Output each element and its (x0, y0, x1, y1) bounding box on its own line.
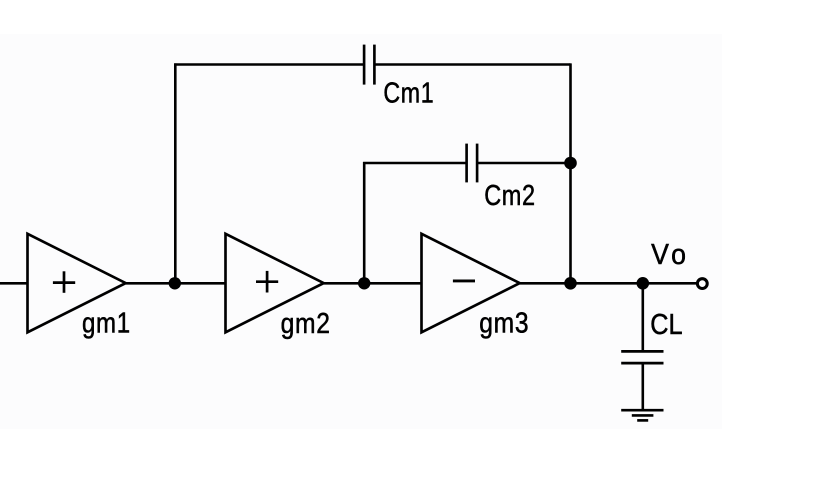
wire Cm1 top left segment (174, 63, 364, 66)
wire gm3 to output terminal (520, 282, 696, 285)
node D (gm3 output junction) (564, 277, 577, 290)
capacitor CL (621, 351, 663, 363)
scan background (0, 34, 722, 429)
wire input to gm1 (0, 282, 28, 285)
terminal Vo (open circle) (697, 279, 707, 289)
svg-text:Cm1: Cm1 (383, 76, 434, 109)
wire Cm2 left segment (363, 162, 467, 165)
svg-text:gm1: gm1 (82, 306, 131, 339)
wire right vertical from Cm1 down to output (569, 63, 572, 283)
op-amp gm3 (422, 234, 520, 332)
wire node A up to Cm1 (174, 63, 177, 283)
wire Cm2 left vertical (363, 162, 366, 283)
node B (Cm1/Cm2 junction) (564, 157, 577, 170)
wire Cm2 right segment (477, 162, 570, 165)
op-amp gm1 (28, 234, 126, 332)
wire gm2 to gm3 (324, 282, 422, 285)
plus sign gm1 (53, 271, 75, 293)
minus sign gm3 (453, 279, 475, 282)
capacitor Cm1 (364, 45, 374, 85)
node A (gm1 output) (169, 277, 181, 289)
wire gm1 to gm2 (126, 282, 226, 285)
svg-text:gm3: gm3 (479, 307, 529, 339)
op-amp gm2 (226, 234, 324, 332)
plus sign gm2 (256, 271, 278, 293)
ground (621, 410, 663, 420)
wire CL to ground (641, 363, 644, 410)
wire Cm1 top right segment (374, 63, 570, 66)
svg-text:CL: CL (650, 308, 682, 341)
svg-text:gm2: gm2 (281, 307, 331, 339)
wire node E down to CL (641, 283, 644, 351)
svg-text:Cm2: Cm2 (484, 179, 536, 212)
node E (Vo / CL junction) (637, 277, 650, 290)
capacitor Cm2 (467, 144, 478, 183)
svg-text:Vo: Vo (651, 238, 690, 270)
node C (gm2 output) (358, 277, 370, 289)
